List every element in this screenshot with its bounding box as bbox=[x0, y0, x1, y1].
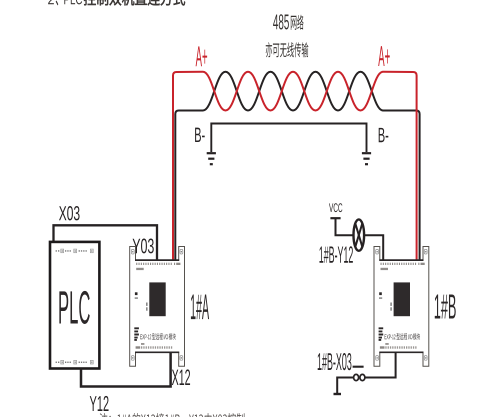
label 1#B bbox=[435, 295, 456, 319]
label A+ right bbox=[378, 46, 390, 66]
push button actuator bar bbox=[353, 366, 364, 368]
wire VCC to lamp bbox=[336, 218, 354, 235]
push button contacts bbox=[354, 374, 365, 380]
COM terminal bar bbox=[334, 393, 342, 395]
label X03 bbox=[59, 206, 80, 220]
VCC supply bar bbox=[330, 217, 340, 219]
label 485 network bbox=[273, 14, 303, 30]
label 1#B-X03 bbox=[318, 353, 352, 370]
wire button to 1#B X03 bbox=[365, 352, 395, 377]
wire Y12 PLC to 1#A X12 bbox=[81, 352, 171, 387]
label X12 bbox=[172, 369, 190, 385]
label Y03 bbox=[133, 239, 154, 254]
ground left bbox=[207, 153, 216, 164]
label B- left bbox=[195, 128, 205, 142]
wire X03 PLC to 1#A Y03 bbox=[54, 225, 158, 260]
I/O module 1#A bbox=[130, 247, 185, 367]
lamp 1#B-Y12 (circle with X) bbox=[354, 219, 365, 250]
label B- right bbox=[379, 128, 389, 142]
wire lamp to 1#B bbox=[364, 235, 383, 260]
wire button to COM bbox=[337, 378, 353, 394]
label A+ left bbox=[196, 46, 208, 66]
shield wire between grounds bbox=[211, 124, 366, 153]
wire B (black) from 1#A through twisted pair to 1#B bbox=[175, 72, 419, 260]
wire A+ (red) from 1#A through twisted pair to 1#B bbox=[173, 72, 417, 260]
label 1#A bbox=[191, 295, 209, 320]
label 1#B-Y12 bbox=[319, 246, 352, 263]
title caption (top, partially cut off) bbox=[48, 0, 185, 5]
label VCC bbox=[329, 203, 342, 212]
label wireless note bbox=[266, 42, 309, 57]
PLC controller box bbox=[50, 242, 99, 369]
I/O module 1#B bbox=[374, 247, 429, 367]
label Y12 bbox=[90, 396, 109, 411]
ground right bbox=[362, 153, 371, 164]
bottom caption (partially cut off) bbox=[99, 413, 248, 417]
